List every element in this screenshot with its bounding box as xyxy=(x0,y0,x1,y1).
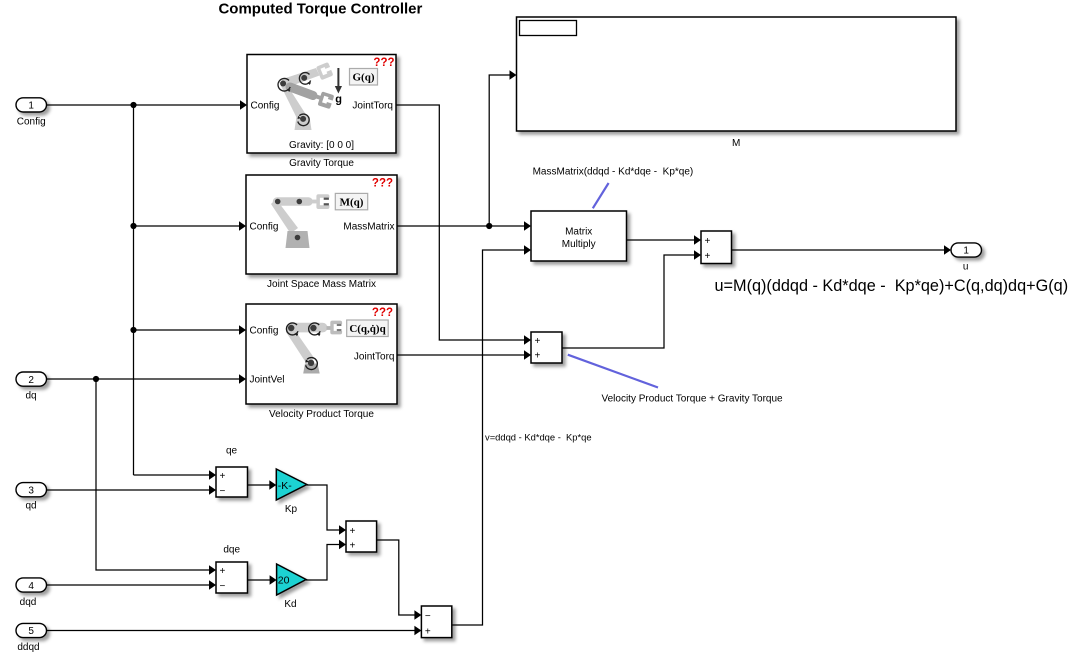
svg-text:MassMatrix(ddqd - Kd*dqe - Kp: MassMatrix(ddqd - Kd*dqe - Kp*qe) xyxy=(533,167,694,178)
svg-text:4: 4 xyxy=(28,581,34,592)
svg-text:M(q): M(q) xyxy=(340,197,364,209)
svg-text:-K-: -K- xyxy=(278,480,293,492)
svg-text:+: + xyxy=(220,471,226,482)
svg-text:−: − xyxy=(425,611,431,622)
svg-text:u=M(q)(ddqd - Kd*dqe - Kp*qe): u=M(q)(ddqd - Kd*dqe - Kp*qe)+C(q,dq)dq+… xyxy=(715,277,1069,295)
svg-text:Velocity Product Torque: Velocity Product Torque xyxy=(269,409,374,420)
svg-text:qd: qd xyxy=(25,501,36,512)
svg-text:dqe: dqe xyxy=(223,545,240,556)
svg-text:+: + xyxy=(705,236,711,247)
svg-text:M: M xyxy=(732,138,740,149)
svg-text:MassMatrix: MassMatrix xyxy=(343,222,394,233)
svg-text:+: + xyxy=(705,251,711,262)
svg-text:+: + xyxy=(425,626,431,637)
svg-text:JointTorq: JointTorq xyxy=(354,352,395,363)
svg-text:???: ??? xyxy=(372,307,393,319)
svg-text:Gravity: [0 0 0]: Gravity: [0 0 0] xyxy=(289,140,354,151)
svg-text:+: + xyxy=(220,566,226,577)
svg-text:???: ??? xyxy=(372,178,393,190)
svg-text:20: 20 xyxy=(278,575,290,587)
svg-text:Kp: Kp xyxy=(285,504,298,515)
svg-text:v=ddqd - Kd*dqe - Kp*qe: v=ddqd - Kd*dqe - Kp*qe xyxy=(485,432,592,443)
svg-text:+: + xyxy=(535,336,541,347)
svg-text:+: + xyxy=(350,540,356,551)
svg-text:Velocity Product Torque + Grav: Velocity Product Torque + Gravity Torque xyxy=(602,394,784,405)
svg-text:2: 2 xyxy=(28,375,34,386)
svg-text:???: ??? xyxy=(373,57,394,69)
svg-text:−: − xyxy=(220,486,226,497)
svg-text:ddqd: ddqd xyxy=(17,642,39,653)
svg-text:−: − xyxy=(220,581,226,592)
svg-text:G(q): G(q) xyxy=(353,72,375,84)
svg-text:3: 3 xyxy=(28,486,34,497)
svg-text:Multiply: Multiply xyxy=(562,239,596,250)
svg-text:1: 1 xyxy=(28,101,34,112)
svg-text:+: + xyxy=(535,350,541,361)
svg-text:u: u xyxy=(963,262,969,273)
svg-text:Kd: Kd xyxy=(284,599,296,610)
svg-text:Matrix: Matrix xyxy=(565,226,592,237)
svg-text:Config: Config xyxy=(251,101,280,112)
svg-text:C(q,q̇)q: C(q,q̇)q xyxy=(349,323,386,335)
svg-text:dqd: dqd xyxy=(20,597,37,608)
svg-text:g: g xyxy=(335,94,342,106)
svg-text:Config: Config xyxy=(250,326,279,337)
svg-text:Config: Config xyxy=(250,222,279,233)
svg-text:JointVel: JointVel xyxy=(250,375,285,386)
svg-text:+: + xyxy=(350,526,356,537)
svg-text:5: 5 xyxy=(28,626,34,637)
svg-text:Gravity Torque: Gravity Torque xyxy=(289,158,354,169)
svg-text:qe: qe xyxy=(226,446,238,457)
svg-text:1: 1 xyxy=(963,246,969,257)
svg-text:Joint Space Mass Matrix: Joint Space Mass Matrix xyxy=(267,279,376,290)
svg-text:Computed Torque Controller: Computed Torque Controller xyxy=(218,1,422,18)
svg-text:dq: dq xyxy=(25,391,36,402)
svg-text:JointTorq: JointTorq xyxy=(352,101,393,112)
svg-text:Config: Config xyxy=(17,117,46,128)
